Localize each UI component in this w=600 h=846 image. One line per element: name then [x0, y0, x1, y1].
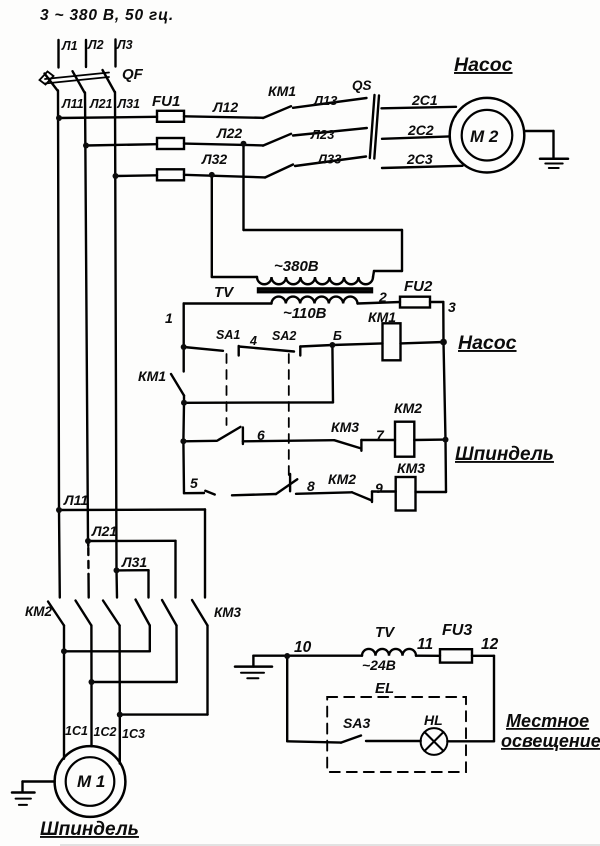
- svg-text:QF: QF: [122, 66, 144, 83]
- svg-text:1: 1: [165, 310, 173, 326]
- svg-text:освещение: освещение: [501, 731, 600, 751]
- svg-text:7: 7: [376, 427, 385, 443]
- svg-text:HL: HL: [424, 712, 443, 728]
- svg-text:FU1: FU1: [152, 93, 180, 110]
- svg-text:1С2: 1С2: [94, 725, 117, 739]
- svg-text:~24В: ~24В: [362, 657, 396, 673]
- svg-text:~110В: ~110В: [283, 305, 327, 322]
- svg-text:2С1: 2С1: [411, 92, 438, 108]
- svg-text:Л33: Л33: [317, 152, 342, 167]
- svg-text:FU3: FU3: [442, 622, 472, 639]
- svg-text:2С2: 2С2: [407, 122, 434, 138]
- svg-text:Л31: Л31: [117, 97, 141, 111]
- svg-text:~380В: ~380В: [274, 258, 319, 275]
- svg-text:Шпиндель: Шпиндель: [455, 444, 554, 465]
- svg-text:Насос: Насос: [454, 54, 513, 76]
- svg-text:КМ1: КМ1: [368, 309, 396, 325]
- svg-text:Л12: Л12: [212, 99, 238, 115]
- svg-text:SA1: SA1: [216, 328, 240, 342]
- svg-text:М 2: М 2: [470, 127, 499, 146]
- svg-text:3: 3: [448, 299, 456, 315]
- svg-text:3 ~ 380 В, 50 гц.: 3 ~ 380 В, 50 гц.: [40, 7, 174, 24]
- svg-text:Л21: Л21: [89, 97, 113, 111]
- svg-text:SA3: SA3: [343, 715, 370, 731]
- svg-text:Местное: Местное: [506, 711, 589, 731]
- svg-text:Л22: Л22: [216, 125, 242, 141]
- svg-text:Л3: Л3: [116, 38, 133, 52]
- svg-text:КМ1: КМ1: [138, 368, 166, 384]
- svg-text:EL: EL: [375, 680, 394, 697]
- svg-text:Л11: Л11: [61, 97, 84, 111]
- svg-text:КМ3: КМ3: [397, 460, 425, 476]
- svg-text:Насос: Насос: [458, 332, 517, 354]
- svg-text:Л1: Л1: [61, 39, 78, 53]
- svg-text:КМ1: КМ1: [268, 83, 296, 99]
- svg-text:Л31: Л31: [121, 554, 147, 570]
- svg-text:12: 12: [481, 636, 499, 653]
- svg-text:4: 4: [249, 334, 257, 348]
- svg-text:10: 10: [294, 639, 312, 656]
- svg-text:Л23: Л23: [310, 127, 335, 142]
- svg-text:Л32: Л32: [201, 151, 227, 167]
- svg-text:КМ3: КМ3: [214, 605, 242, 620]
- svg-text:КМ3: КМ3: [331, 419, 359, 435]
- svg-text:Б: Б: [333, 329, 342, 343]
- svg-text:8: 8: [307, 478, 315, 494]
- svg-text:КМ2: КМ2: [328, 471, 356, 487]
- svg-text:5: 5: [190, 475, 198, 491]
- svg-text:КМ2: КМ2: [25, 604, 53, 619]
- svg-text:2С3: 2С3: [406, 151, 433, 167]
- svg-text:Л13: Л13: [313, 93, 338, 108]
- svg-text:Л2: Л2: [87, 38, 104, 52]
- svg-text:1С3: 1С3: [122, 727, 145, 741]
- svg-text:Л21: Л21: [91, 523, 117, 539]
- svg-text:КМ2: КМ2: [394, 400, 422, 416]
- svg-text:FU2: FU2: [404, 278, 433, 295]
- svg-text:TV: TV: [214, 284, 235, 301]
- svg-text:6: 6: [257, 427, 265, 443]
- svg-text:QS: QS: [352, 78, 372, 93]
- svg-text:М 1: М 1: [77, 772, 105, 791]
- svg-text:11: 11: [417, 636, 433, 653]
- svg-text:2: 2: [378, 289, 387, 305]
- svg-text:Л11: Л11: [63, 492, 88, 508]
- svg-text:TV: TV: [375, 624, 396, 641]
- svg-text:SA2: SA2: [272, 329, 296, 343]
- svg-text:9: 9: [375, 480, 383, 496]
- svg-text:Шпиндель: Шпиндель: [40, 819, 139, 840]
- svg-text:1С1: 1С1: [65, 724, 88, 738]
